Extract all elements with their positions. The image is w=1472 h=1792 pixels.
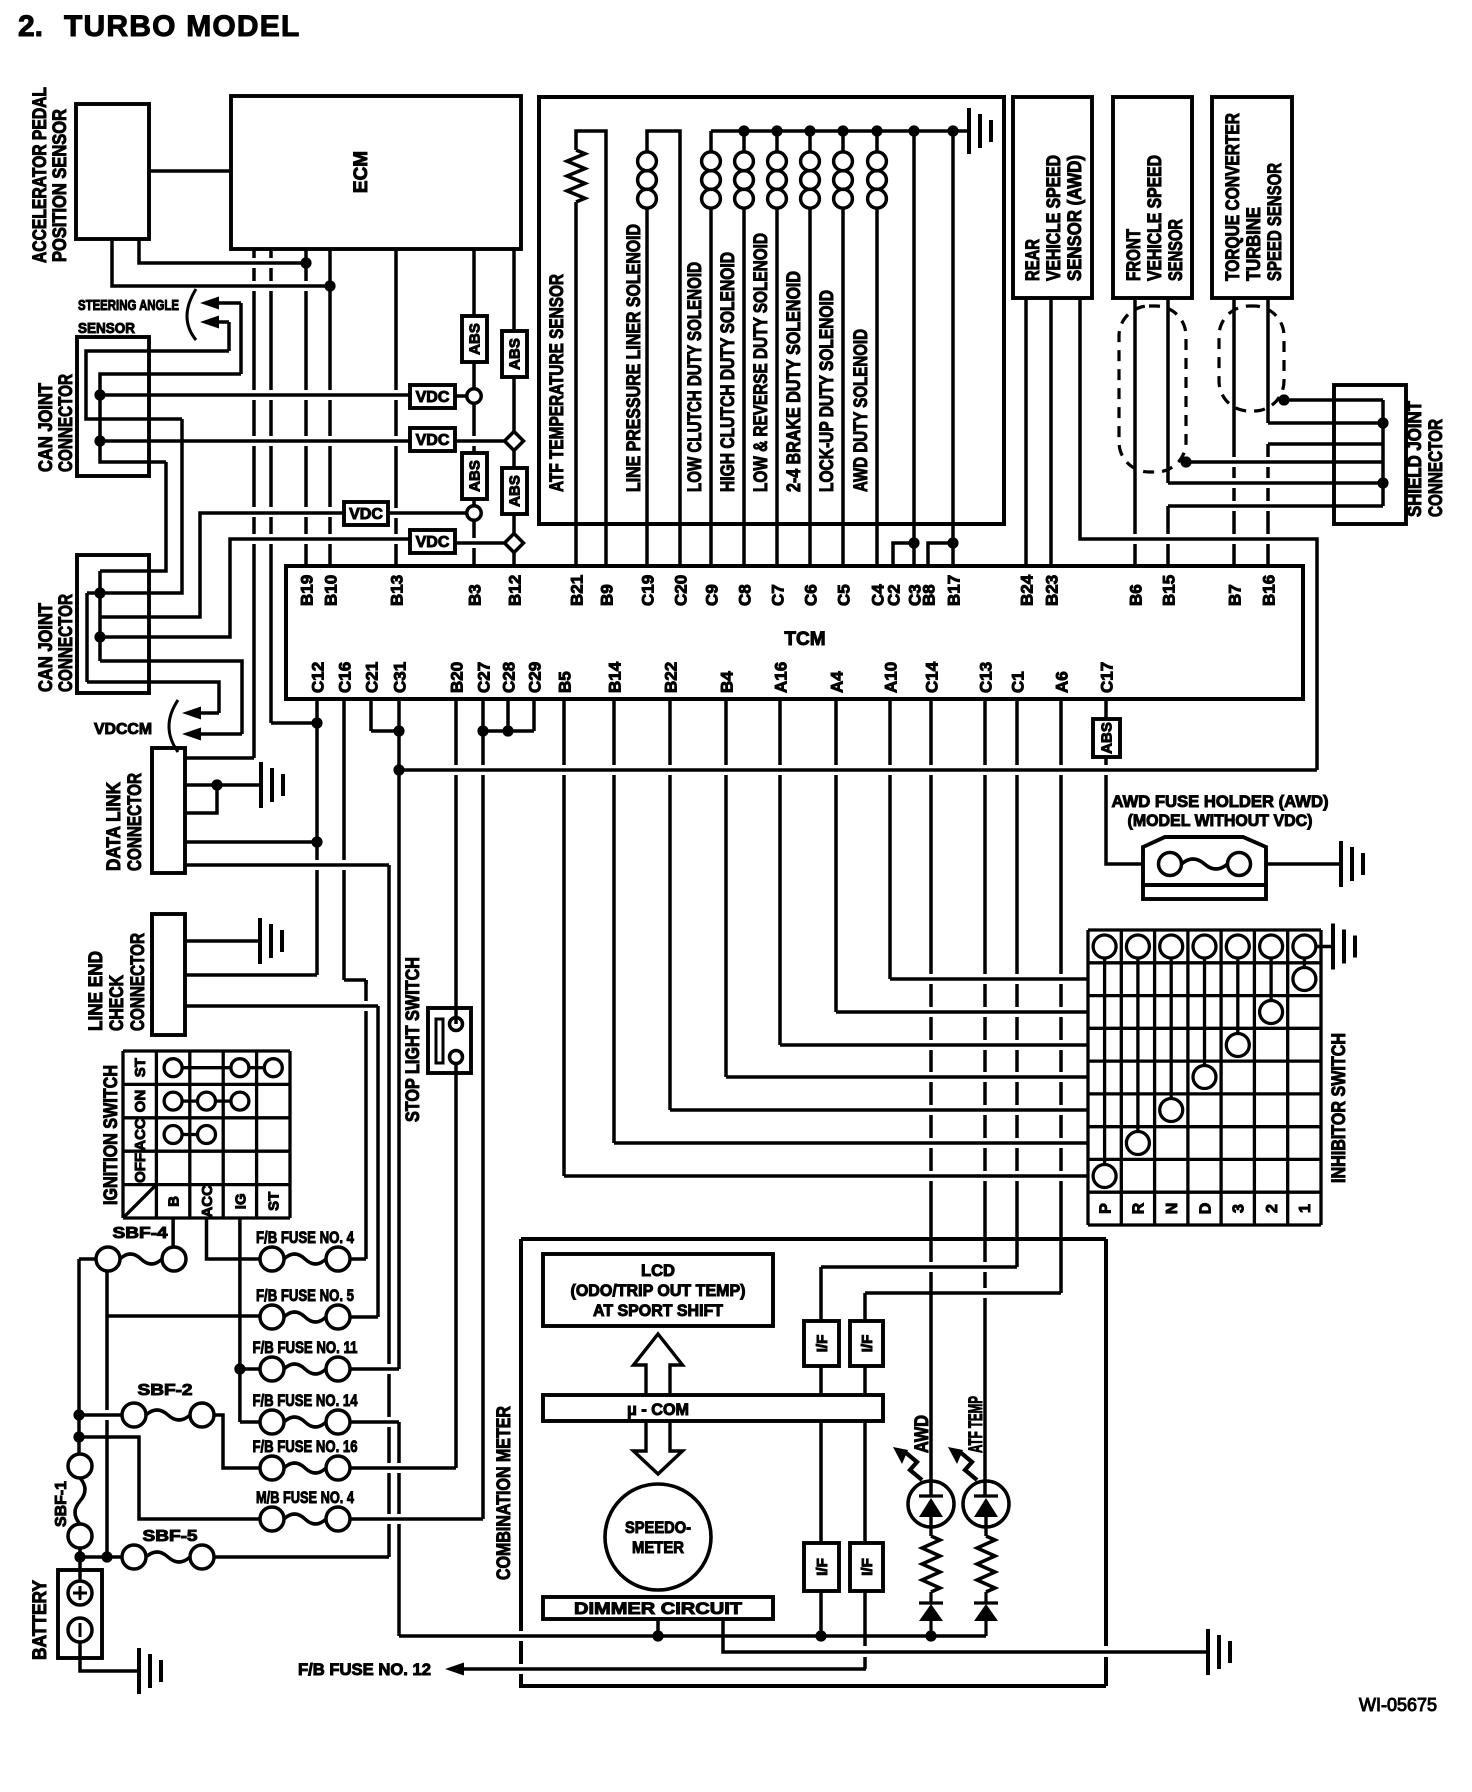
VDC box 3 <box>344 502 388 525</box>
wire B17 from bus <box>951 131 955 566</box>
svg-text:BATTERY: BATTERY <box>30 1580 51 1660</box>
svg-text:B8: B8 <box>920 584 939 606</box>
line end check stub to ground <box>185 939 260 943</box>
svg-text:2-4 BRAKE DUTY SOLENOID: 2-4 BRAKE DUTY SOLENOID <box>784 271 805 492</box>
junction dot bus AWD duty solenoid <box>871 125 882 136</box>
junction dot C3/C2 <box>908 537 919 548</box>
svg-text:ACC: ACC <box>199 1185 216 1218</box>
ABS box on C17 <box>1093 719 1120 757</box>
wire B9 pin <box>604 152 608 566</box>
line end check connector box <box>152 914 185 1035</box>
wire AWD fuse to ground <box>1266 862 1341 866</box>
svg-text:C6: C6 <box>802 584 821 606</box>
junction dot CAN2 a <box>94 587 105 598</box>
svg-text:B16: B16 <box>1260 575 1279 606</box>
wire F/B fuse 14 to illumination bus <box>350 1420 399 1424</box>
junction dot B17/B8 <box>947 537 958 548</box>
junction dot SJC 1 <box>1377 417 1388 428</box>
wire B20 pin to stop light switch <box>454 699 458 1024</box>
shield joint internal bus <box>1381 400 1385 506</box>
AWD diode <box>929 1592 932 1603</box>
junction dot AWD lamp <box>925 1630 936 1641</box>
svg-text:(MODEL WITHOUT VDC): (MODEL WITHOUT VDC) <box>1128 811 1313 830</box>
combination meter box <box>521 1239 1106 1686</box>
ABS box 3 on B3 line <box>462 453 487 499</box>
svg-text:LOW CLUTCH DUTY SOLENOID: LOW CLUTCH DUTY SOLENOID <box>685 262 706 492</box>
AWD fuse terminal left <box>1159 853 1182 876</box>
VDC box 4 <box>410 530 455 553</box>
junction dot accel/B19 <box>300 257 311 268</box>
svg-text:VDC: VDC <box>349 506 383 523</box>
wire ECM to TCM B3 with ABS taps <box>472 249 476 566</box>
junction dot CAN1 VDC1 <box>94 389 105 400</box>
SBF-2 fuse <box>122 1403 146 1427</box>
svg-text:AWD FUSE HOLDER (AWD): AWD FUSE HOLDER (AWD) <box>1112 792 1329 811</box>
wire ECM to TCM B13 <box>394 249 398 566</box>
svg-text:B7: B7 <box>1226 584 1245 606</box>
F/B fuse 12 wire and arrow <box>445 1663 866 1676</box>
wire front shield to SJC <box>1186 460 1383 464</box>
svg-text:CAN JOINT: CAN JOINT <box>36 383 57 472</box>
svg-text:B3: B3 <box>466 584 485 606</box>
AWD duty solenoid pin wire <box>875 208 879 566</box>
wire ECM to C12 junction <box>271 721 317 725</box>
svg-text:LCD: LCD <box>641 1262 675 1280</box>
AWD fuse ground <box>1341 841 1363 887</box>
stop light switch plunger <box>436 1019 443 1063</box>
svg-text:ABS: ABS <box>1098 722 1115 754</box>
wire C27-C28-C29 connector <box>483 729 534 733</box>
svg-text:VEHICLE SPEED: VEHICLE SPEED <box>1044 155 1065 281</box>
wire CAN2 to VDC4 <box>100 539 410 637</box>
svg-text:C17: C17 <box>1098 662 1117 693</box>
wire C2 jog <box>893 543 914 566</box>
svg-text:F/B FUSE NO. 5: F/B FUSE NO. 5 <box>256 1286 354 1305</box>
svg-text:ABS: ABS <box>506 475 523 507</box>
wire inhibitor to ground <box>1316 945 1333 949</box>
ignition switch contacts ON row <box>164 1092 249 1110</box>
svg-text:N: N <box>1164 1203 1181 1215</box>
svg-text:VDC: VDC <box>416 534 450 551</box>
interface box 2 <box>850 1321 883 1366</box>
wire I/F column 2 <box>863 1366 867 1669</box>
svg-text:R: R <box>1131 1202 1148 1214</box>
svg-text:AWD DUTY SOLENOID: AWD DUTY SOLENOID <box>851 329 872 492</box>
svg-text:SBF-1: SBF-1 <box>53 1481 70 1527</box>
junction dot C31 connector <box>393 725 404 736</box>
junction dot CAN1 VDC2 <box>94 435 105 446</box>
wire ECM CAN-B down to C12 node <box>269 249 273 723</box>
ATF TEMP lamp resistor <box>984 1517 987 1536</box>
lock-up duty solenoid top wire <box>841 131 845 152</box>
down arrow speedometer <box>634 1421 683 1474</box>
svg-text:C28: C28 <box>500 662 519 693</box>
wire TCM C14 to AWD lamp <box>929 699 933 1497</box>
svg-text:D: D <box>1197 1203 1214 1215</box>
svg-text:B5: B5 <box>556 671 575 693</box>
junction dot bus lock-up duty solenoid <box>837 125 848 136</box>
svg-text:STEERING ANGLE: STEERING ANGLE <box>78 297 179 314</box>
wire B24 pin <box>1024 298 1028 566</box>
fuse F/B FUSE NO. 11 <box>260 1357 284 1381</box>
svg-text:ST: ST <box>266 1192 283 1211</box>
svg-text:DATA LINK: DATA LINK <box>104 782 125 871</box>
wire B16 sensor side <box>1266 298 1270 423</box>
battery positive terminal <box>68 1581 92 1605</box>
wire C16 pin to fuse4 riser <box>342 699 346 980</box>
CAN2 internal bus 1 <box>98 571 102 661</box>
svg-text:LOW & REVERSE DUTY SOLENOID: LOW & REVERSE DUTY SOLENOID <box>751 233 772 492</box>
wire battery bus to SBF-2 <box>79 1413 122 1417</box>
wire C20 pin <box>678 152 682 566</box>
svg-text:B4: B4 <box>718 671 737 693</box>
wire stop light switch to F/B fuse 16 <box>454 1064 458 1469</box>
svg-text:3: 3 <box>1231 1204 1248 1213</box>
svg-text:TURBINE: TURBINE <box>1244 207 1265 281</box>
right ground <box>1208 1629 1230 1675</box>
wire ECM to TCM B10 <box>328 249 332 566</box>
high clutch duty solenoid top wire <box>742 131 746 152</box>
fuse F/B FUSE NO. 5 <box>260 1305 284 1329</box>
interface box 1 <box>804 1321 839 1366</box>
SBF-1 fuse <box>68 1454 92 1478</box>
wire steering arrow2 to CAN connector <box>227 322 231 351</box>
connector diamond on B12 lower <box>505 534 524 553</box>
wire TCM A10 to inhibitor switch <box>888 699 892 979</box>
svg-text:B19: B19 <box>298 575 317 606</box>
VDCCM arrow lower <box>182 728 242 741</box>
speedometer circle <box>605 1484 711 1590</box>
VDCCM arrow upper <box>182 707 219 720</box>
svg-text:METER: METER <box>632 1539 684 1557</box>
svg-text:C9: C9 <box>703 584 722 606</box>
SBF-4 fuse <box>96 1247 120 1271</box>
interface box 3 <box>804 1543 839 1591</box>
wire accel pin1 to B19 node <box>139 239 306 263</box>
wire B21 pin <box>574 202 578 566</box>
svg-text:ST: ST <box>132 1058 149 1077</box>
AWD duty solenoid top wire <box>875 131 879 152</box>
wire IG to F/B fuse 14 <box>240 1420 260 1424</box>
svg-text:VEHICLE SPEED: VEHICLE SPEED <box>1145 155 1166 281</box>
wire TCM B14 to inhibitor switch <box>612 699 616 1143</box>
wire TCM B22 to inhibitor switch <box>668 699 672 1110</box>
wire TCM C1 to interface 1 <box>1015 699 1019 1267</box>
svg-text:CAN JOINT: CAN JOINT <box>36 603 57 692</box>
wire line end check riser to fuse 5 <box>376 1006 380 1317</box>
low & reverse duty solenoid top wire <box>775 131 779 152</box>
wire B16 TCM side <box>1266 444 1270 566</box>
wire B8 jog <box>928 543 953 566</box>
steering arrow 2 <box>200 316 229 329</box>
battery negative terminal <box>68 1618 92 1642</box>
wire C28 pin <box>506 699 510 731</box>
ATF TEMP lamp circle <box>963 1481 1009 1527</box>
svg-text:C19: C19 <box>639 575 658 606</box>
wire B6 pin <box>1133 298 1137 566</box>
wire TCM B5 to inhibitor switch <box>562 699 566 1176</box>
svg-text:I/F: I/F <box>859 1558 876 1576</box>
svg-text:B9: B9 <box>598 584 617 606</box>
2-4 brake duty solenoid coil <box>801 152 820 171</box>
wire C31 pin down to fuse 11 <box>397 699 401 1369</box>
line pressure solenoid top link <box>647 131 680 152</box>
svg-text:WI-05675: WI-05675 <box>1359 1695 1437 1715</box>
junction dot on C12 line <box>311 717 322 728</box>
svg-text:C31: C31 <box>391 662 410 693</box>
svg-text:C16: C16 <box>336 662 355 693</box>
battery ground <box>139 1648 161 1694</box>
torque sensor shield capsule <box>1219 306 1284 411</box>
AWD LED symbol <box>919 1494 943 1497</box>
wire CAN1 to VDC1 <box>100 393 410 397</box>
wire dimmer drop <box>656 1619 660 1636</box>
wire B23 pin <box>1049 298 1053 566</box>
data link stub 3 <box>185 785 217 813</box>
SBF-5 fuse <box>122 1545 146 1569</box>
junction dot C31 long line <box>393 764 404 775</box>
wire A6 jog to I/F <box>865 1293 1061 1321</box>
svg-text:I/F: I/F <box>859 1335 876 1353</box>
svg-text:SBF-5: SBF-5 <box>143 1528 198 1545</box>
junction dot SJC 2 <box>1377 477 1388 488</box>
stop light switch box <box>428 1008 471 1073</box>
svg-text:A16: A16 <box>772 662 791 693</box>
svg-text:B17: B17 <box>945 575 964 606</box>
svg-text:CONNECTOR: CONNECTOR <box>56 374 77 472</box>
wire SBF-1 to battery <box>78 1548 82 1581</box>
line end check stub to C12 <box>185 973 317 977</box>
svg-text:B13: B13 <box>388 575 407 606</box>
svg-text:F/B FUSE NO. 11: F/B FUSE NO. 11 <box>253 1338 358 1357</box>
battery bus vertical <box>77 1259 81 1454</box>
svg-text:(ODO/TRIP OUT TEMP): (ODO/TRIP OUT TEMP) <box>571 1282 746 1300</box>
svg-text:LINE PRESSURE LINER SOLENOID: LINE PRESSURE LINER SOLENOID <box>624 224 645 492</box>
svg-text:TURBO MODEL: TURBO MODEL <box>64 10 301 43</box>
inhibitor switch grid <box>1088 930 1321 1225</box>
svg-text:ACC: ACC <box>132 1118 149 1151</box>
svg-text:STOP LIGHT SWITCH: STOP LIGHT SWITCH <box>403 957 424 1122</box>
svg-text:ATF TEMP: ATF TEMP <box>966 1396 987 1453</box>
svg-text:C21: C21 <box>363 662 382 693</box>
wire B15 to SJC <box>1168 481 1383 485</box>
svg-text:IG: IG <box>232 1193 249 1209</box>
junction dot C28 <box>502 725 513 736</box>
svg-text:CONNECTOR: CONNECTOR <box>56 594 77 692</box>
solenoid ground bus <box>711 129 969 133</box>
wire ignition ACC to F/B fuse 4 <box>207 1218 261 1259</box>
battery box <box>58 1570 102 1658</box>
wire C27 pin down to M/B fuse 4 <box>481 699 485 1519</box>
svg-text:A6: A6 <box>1053 671 1072 693</box>
svg-text:SENSOR (AWD): SENSOR (AWD) <box>1065 155 1086 281</box>
svg-text:IGNITION SWITCH: IGNITION SWITCH <box>101 1065 122 1205</box>
junction dot IG fuse 11 <box>234 1363 245 1374</box>
wire M/B fuse 4 to C27 <box>350 1517 483 1521</box>
junction dot bus B17 <box>947 125 958 136</box>
wire TCM A4 to inhibitor switch <box>834 699 838 1012</box>
solenoid group box <box>539 97 1004 524</box>
low clutch duty solenoid coil <box>702 152 721 171</box>
ignition switch grid <box>123 1051 290 1218</box>
svg-text:CONNECTOR: CONNECTOR <box>125 773 146 871</box>
svg-text:TORQUE CONVERTER: TORQUE CONVERTER <box>1223 113 1244 281</box>
svg-text:OFF: OFF <box>132 1153 149 1183</box>
inhibitor switch top contacts <box>1093 935 1316 958</box>
connector circle on B3 upper <box>467 389 481 403</box>
dimmer circuit box <box>543 1597 773 1619</box>
ABS box 2 on B12 line <box>502 331 527 377</box>
wire B7 pin <box>1232 298 1236 566</box>
svg-text:C7: C7 <box>769 584 788 606</box>
wire TCM C17 to ABS <box>1104 699 1108 719</box>
inhibitor ground <box>1333 924 1355 970</box>
svg-text:I/F: I/F <box>814 1558 831 1576</box>
wire B15 TCM side <box>1166 506 1170 566</box>
svg-text:C14: C14 <box>923 661 942 693</box>
wire TCM C13 to ATF lamp <box>983 699 987 1497</box>
low & reverse duty solenoid coil <box>768 152 787 171</box>
svg-text:M/B FUSE NO. 4: M/B FUSE NO. 4 <box>256 1488 354 1507</box>
svg-text:B6: B6 <box>1127 584 1146 606</box>
wire accel sensor to ECM <box>149 169 231 173</box>
AWD duty solenoid coil <box>868 152 887 171</box>
high clutch duty solenoid coil <box>735 152 754 171</box>
svg-text:ACCELERATOR PEDAL: ACCELERATOR PEDAL <box>30 87 51 263</box>
svg-text:A4: A4 <box>828 671 847 693</box>
mu-COM bar <box>543 1395 883 1421</box>
fuse F/B FUSE NO. 16 <box>260 1456 284 1480</box>
svg-text:HIGH CLUTCH DUTY SOLENOID: HIGH CLUTCH DUTY SOLENOID <box>718 252 739 492</box>
svg-text:CONNECTOR: CONNECTOR <box>128 933 149 1031</box>
fuse M/B FUSE NO. 4 <box>260 1507 284 1531</box>
svg-text:B12: B12 <box>506 575 525 606</box>
wire ECM CAN-A down to data link connector <box>252 249 256 758</box>
torque converter turbine speed sensor box <box>1212 97 1292 298</box>
svg-text:C2: C2 <box>885 584 904 606</box>
AWD light arrow <box>893 1447 922 1480</box>
wire SJC to B16 TCM <box>1268 442 1383 446</box>
svg-text:C8: C8 <box>736 584 755 606</box>
svg-text:INHIBITOR SWITCH: INHIBITOR SWITCH <box>1329 1033 1350 1183</box>
ignition switch contacts ACC row <box>164 1126 215 1144</box>
low clutch duty solenoid pin wire <box>709 208 713 566</box>
wire VDC1 to B3 circle <box>455 394 467 398</box>
svg-text:B23: B23 <box>1043 575 1062 606</box>
wire I/F column 1 <box>819 1366 823 1636</box>
svg-text:B14: B14 <box>606 661 625 693</box>
wire VDC2 to B12 diamond <box>455 439 504 443</box>
VDC box 1 <box>410 385 455 408</box>
CAN joint connector upper box <box>77 337 149 476</box>
shield joint connector box <box>1334 385 1406 524</box>
svg-text:2.: 2. <box>18 10 43 43</box>
front vehicle speed sensor box <box>1113 97 1192 298</box>
wire CAN1 pin1 <box>86 351 229 419</box>
junction dot C27 <box>477 725 488 736</box>
wire battery to SBF-5 <box>80 1555 122 1559</box>
junction dot CAN2 b <box>94 631 105 642</box>
wire C21-C31 connector <box>371 729 399 733</box>
svg-text:FRONT: FRONT <box>1124 229 1145 281</box>
svg-text:ABS: ABS <box>466 460 483 492</box>
wire C19 pin <box>645 208 649 566</box>
data link stub to ECM CAN-A <box>185 756 254 760</box>
junction dot bus 2-4 brake duty solenoid <box>804 125 815 136</box>
svg-text:B: B <box>166 1196 183 1207</box>
wire C29 pin <box>532 699 536 731</box>
svg-text:AWD: AWD <box>912 1415 933 1453</box>
VDC box 2 <box>410 428 455 451</box>
inhibitor switch moving contacts <box>1093 958 1316 1188</box>
svg-text:F/B FUSE NO. 4: F/B FUSE NO. 4 <box>256 1228 354 1247</box>
svg-text:C27: C27 <box>475 662 494 693</box>
wire accel pin2 to B10 node <box>112 239 330 286</box>
svg-text:LINE END: LINE END <box>86 951 107 1031</box>
2-4 brake duty solenoid pin wire <box>808 208 812 566</box>
svg-text:SENSOR: SENSOR <box>1166 219 1187 281</box>
svg-text:C12: C12 <box>309 662 328 693</box>
svg-text:ABS: ABS <box>506 338 523 370</box>
svg-text:SENSOR: SENSOR <box>78 320 135 337</box>
lock-up duty solenoid pin wire <box>841 208 845 566</box>
svg-text:B22: B22 <box>662 662 681 693</box>
ABS box 1 on B3 line <box>462 316 487 362</box>
ATF temperature sensor resistor <box>567 150 585 202</box>
AWD fuse element <box>1182 859 1228 869</box>
wire CAN2 to VDC3 <box>100 513 344 617</box>
wire SBF-4 to battery bus <box>79 1257 96 1261</box>
junction dot data link ground <box>211 779 222 790</box>
low clutch duty solenoid top wire <box>709 131 713 152</box>
svg-text:B21: B21 <box>568 575 587 606</box>
svg-text:2: 2 <box>1264 1204 1281 1213</box>
wire C12 pin down <box>315 699 319 975</box>
ECM box <box>231 96 521 249</box>
steering angle sensor bracket <box>187 289 196 340</box>
wire steering arrow1 to CAN connector <box>239 303 243 374</box>
svg-text:B24: B24 <box>1018 574 1037 606</box>
illumination bus wire <box>399 1634 986 1638</box>
wire battery to ground <box>80 1642 139 1671</box>
svg-text:B15: B15 <box>1160 575 1179 606</box>
wire SBF-4 left to F/B fuse 5 <box>105 1271 109 1557</box>
front sensor shield capsule <box>1119 306 1186 472</box>
long wire TCM C31 to rear shield riser <box>399 768 1317 772</box>
data link connector box <box>152 748 185 873</box>
accelerator pedal position sensor box <box>76 104 149 239</box>
VDCCM bracket <box>169 700 178 752</box>
wire CAN1 to CAN2 link 2 <box>87 419 182 593</box>
2-4 brake duty solenoid top wire <box>808 131 812 152</box>
junction dot torque shield <box>1278 394 1289 405</box>
svg-text:REAR: REAR <box>1023 239 1044 281</box>
wire VDC4 to B12 diamond lower <box>455 541 504 545</box>
wire ignition IG down <box>238 1218 242 1422</box>
CAN2 internal bus 2 <box>85 593 89 682</box>
high clutch duty solenoid pin wire <box>742 208 746 566</box>
wire TCM B4 to inhibitor switch <box>724 699 728 1077</box>
svg-text:CONNECTOR: CONNECTOR <box>1426 419 1447 517</box>
AWD lamp circle <box>908 1481 954 1527</box>
low & reverse duty solenoid pin wire <box>775 208 779 566</box>
lock-up duty solenoid coil <box>834 152 853 171</box>
wire TCM A16 to inhibitor switch <box>778 699 782 1045</box>
wire F/B fuse 5 to line end check riser <box>350 1315 378 1319</box>
wire to F/B fuse 5 <box>107 1314 260 1318</box>
AWD fuse terminal right <box>1228 853 1251 876</box>
data link stub to ground <box>185 783 261 787</box>
